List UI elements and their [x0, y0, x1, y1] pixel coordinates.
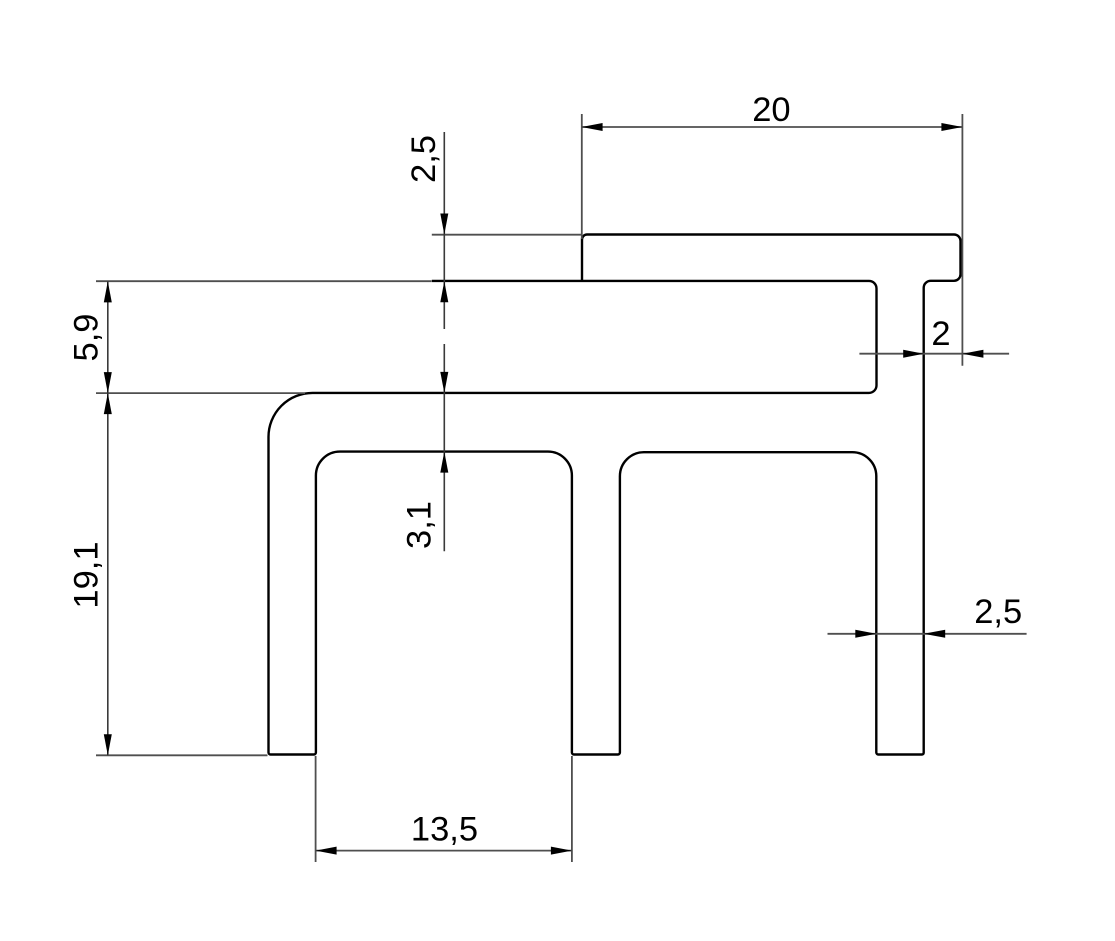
extension line top plate top edge (left of plate): [432, 234, 582, 236]
dimension 20 line: [582, 126, 963, 128]
svg-text:2,5: 2,5: [974, 593, 1022, 631]
svg-text:2: 2: [931, 315, 950, 353]
extension line insert top edge to left margin: [96, 280, 432, 282]
extension line web top edge to left margin: [96, 392, 305, 394]
dimension 5,9 arrow down: [104, 372, 112, 393]
dimension 3,1 upper tail: [443, 344, 445, 551]
dimension 13,5 arrow left: [316, 847, 337, 855]
svg-text:20: 20: [752, 91, 790, 129]
extension line 20/2 right: [961, 114, 963, 366]
dimension 2,5 right line: [828, 633, 1027, 635]
dimension 13,5 arrow right: [551, 847, 572, 855]
svg-text:5,9: 5,9: [67, 314, 105, 362]
dimension 2 arrow pointing right at leg edge: [903, 350, 924, 358]
dimension 19,1 arrow down: [104, 734, 112, 755]
dimension 3,1 arrow down: [440, 372, 448, 393]
dimension 13,5 line: [316, 850, 572, 852]
dimension 2 line: [859, 353, 1009, 355]
dimension 20 arrow left: [582, 123, 603, 131]
dimension 19,1 arrow up: [104, 393, 112, 414]
dimension 2,5 right arrow pointing right: [855, 630, 876, 638]
dimension 2,5 top line: [443, 132, 445, 329]
dimension 2,5 right arrow pointing left: [924, 630, 946, 638]
svg-text:3,1: 3,1: [401, 501, 439, 549]
profile outline (aluminium section, open path): [269, 235, 961, 755]
extension line 13,5 left: [315, 756, 317, 862]
dimension 5,9 / 19,1 shared line: [107, 281, 109, 755]
extension line 20 left: [581, 114, 583, 239]
svg-text:13,5: 13,5: [411, 810, 478, 848]
dimension 2,5 top arrow down: [440, 214, 448, 235]
dimension 2,5 top arrow up (below): [440, 281, 448, 302]
svg-text:19,1: 19,1: [67, 541, 105, 608]
dimension 2 arrow pointing left at extension: [962, 350, 983, 358]
svg-text:2,5: 2,5: [405, 135, 443, 183]
extension line 13,5 right: [571, 756, 573, 862]
dimension 20 arrow right: [941, 123, 962, 131]
extension line leg bottom to left margin: [96, 754, 268, 756]
dimension 5,9 arrow up: [104, 281, 112, 302]
dimension 3,1 arrow up: [440, 452, 448, 473]
